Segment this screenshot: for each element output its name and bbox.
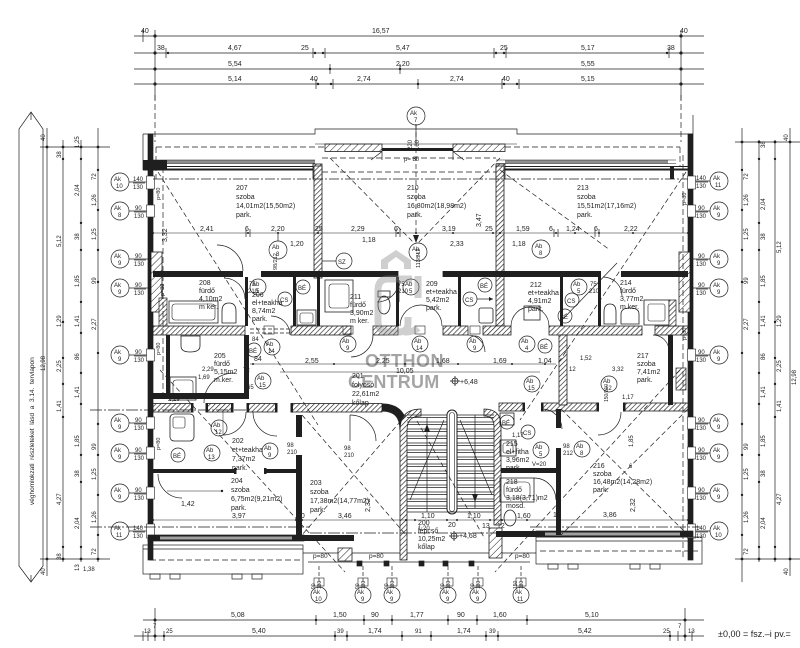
watermark roof icon [381,250,411,269]
svg-text:130: 130 [696,426,707,432]
svg-text:10: 10 [715,533,722,539]
svg-text:Ab: Ab [521,339,529,345]
svg-text:park.: park. [232,465,248,472]
svg-text:kőlap: kőlap [352,400,369,407]
duct wall right of 217 [668,335,673,405]
svg-text:6: 6 [394,226,398,233]
terrace teeth left [150,574,160,579]
218 door arc [534,478,556,500]
bottom dashdot left [90,526,310,528]
roof valley V room 210 right [418,158,500,243]
bottom cross tick [40,558,110,560]
Ab9 [340,336,356,352]
svg-text:130: 130 [390,580,396,589]
svg-text:130: 130 [361,580,367,589]
corridor hatched band segments [153,326,245,335]
diagonal bottom left [160,370,345,572]
svg-text:38: 38 [75,233,81,240]
stair central stringer [447,410,457,514]
tick arrows row2 [166,48,669,89]
svg-text:Ab: Ab [257,376,265,382]
svg-text:2,41: 2,41 [200,226,214,233]
svg-text:140: 140 [133,177,144,183]
bottom cross tick [735,558,800,560]
svg-text:38: 38 [761,233,767,240]
Ab9 202 [262,443,278,459]
svg-text:5,47: 5,47 [396,45,410,52]
vertical dashed to bottom circles [318,566,320,586]
shower 214 [644,300,669,325]
svg-text:10: 10 [553,512,561,519]
svg-text:1,59: 1,59 [516,226,530,233]
svg-text:mosd.: mosd. [506,503,525,510]
Ab5 door 209 [403,279,419,295]
svg-text:25: 25 [301,45,309,52]
Ak11 [513,587,529,603]
svg-text:BÉ: BÉ [249,348,257,355]
svg-text:130: 130 [133,534,144,540]
svg-text:130: 130 [133,185,144,191]
door gap 215 [524,402,542,412]
Ak9 [710,279,728,297]
svg-text:99: 99 [744,277,750,284]
svg-text:Ab: Ab [469,339,477,345]
BE 205 [247,343,261,357]
svg-text:2,55: 2,55 [305,358,319,365]
svg-text:130: 130 [696,291,707,297]
svg-text:park.: park. [506,465,522,472]
chain line D (innermost) [97,128,99,562]
partition below thick wall [317,277,320,326]
bottom wall 218 area [496,531,538,537]
svg-text:m.ker.: m.ker. [214,377,233,384]
leader through 212 circles [560,263,617,322]
svg-text:15,51m2(17,16m2): 15,51m2(17,16m2) [577,203,636,210]
svg-text:1,29: 1,29 [57,315,63,327]
svg-text:V=20: V=20 [532,462,547,468]
Ak9 [710,202,728,220]
bottom centre piers [338,548,352,561]
svg-text:Ab: Ab [576,444,584,450]
svg-text:13: 13 [482,523,490,530]
CS 206 [278,292,292,306]
svg-text:p=80: p=80 [156,438,162,450]
207 door arc [217,245,243,271]
centre window bar [382,148,453,151]
svg-text:72: 72 [744,548,750,555]
svg-text:40: 40 [41,134,47,141]
roof outline dashed top [156,146,325,148]
svg-text:±0,00 = fsz.–i pv.=: ±0,00 = fsz.–i pv.= [718,629,791,639]
svg-text:130: 130 [317,580,323,589]
door arc 208 [224,278,245,299]
svg-text:2,22: 2,22 [624,226,638,233]
partition 211|209 [396,277,399,326]
centre slab left (hatched) [325,144,382,152]
svg-text:1,60: 1,60 [493,612,507,619]
terrace dashed left [150,559,300,561]
svg-text:39: 39 [337,629,344,635]
svg-text:CS: CS [567,299,575,305]
Ak9 [440,587,456,603]
dim line across top rooms [153,233,688,520]
right terrace slab [536,537,702,564]
svg-text:Ak: Ak [713,283,721,289]
svg-text:Ak: Ak [114,283,122,289]
wall 202|204 [153,469,300,473]
svg-text:130: 130 [134,456,145,462]
svg-text:203: 203 [310,480,322,487]
svg-text:2,74: 2,74 [450,76,464,83]
bottom dimension block [134,580,791,641]
svg-text:Ab: Ab [213,423,221,429]
dim line row 3 [134,68,704,70]
svg-text:CENTRUM: CENTRUM [348,372,439,392]
corridor centreline [90,409,250,411]
svg-text:1,85: 1,85 [761,435,767,447]
svg-text:25: 25 [500,45,508,52]
door arc into 202 [223,412,246,435]
svg-text:90: 90 [698,488,705,494]
205 door arc [204,373,234,403]
SZ circle [336,253,352,269]
svg-text:2,27: 2,27 [744,318,750,330]
svg-text:szoba: szoba [637,361,656,368]
svg-text:3,96m2: 3,96m2 [506,457,529,464]
dash-dot eaves line [153,178,688,180]
partition 206|211 [293,277,296,326]
Ab9 [467,336,483,352]
svg-text:90: 90 [698,206,705,212]
svg-text:2,04: 2,04 [75,184,81,196]
svg-text:5,15m2: 5,15m2 [214,369,237,376]
bottom dashdot centre [310,532,536,534]
sink 206 [297,310,316,325]
svg-text:5,17: 5,17 [581,45,595,52]
svg-text:90: 90 [698,448,705,454]
Ak9 [470,587,486,603]
svg-text:2,04: 2,04 [761,517,767,529]
svg-text:Ak: Ak [114,488,122,494]
svg-text:65: 65 [247,385,254,391]
corridor left wall [244,335,249,399]
svg-text:Ab: Ab [272,245,280,251]
wc 208 [222,303,236,323]
svg-text:Ak: Ak [713,418,721,424]
Ak circle column right [692,172,728,540]
svg-text:fürdő: fürdő [350,302,366,309]
stairwell left wall hatched [400,409,421,560]
corridor bottom wall hatched [153,404,382,413]
partition 212|214 [560,277,563,326]
svg-text:p=80: p=80 [369,553,384,560]
left vertical dashed [162,167,164,399]
svg-text:park.: park. [310,507,326,514]
svg-text:208: 208 [199,280,211,287]
Ab15 215 [524,376,540,392]
svg-text:12: 12 [215,430,222,436]
Ak10 [111,173,129,191]
svg-text:130: 130 [134,496,145,502]
svg-text:40: 40 [310,76,318,83]
thick wall between 210 and 213 [496,166,504,326]
shower 211 [325,280,353,312]
svg-text:1,85: 1,85 [75,435,81,447]
svg-text:3,32: 3,32 [612,367,624,373]
svg-text:Ak: Ak [114,206,122,212]
Ab13 202 [204,445,220,461]
wall 215|218 [496,468,558,473]
svg-text:1,25: 1,25 [744,468,750,480]
svg-text:99: 99 [744,443,750,450]
svg-text:12: 12 [497,523,505,530]
svg-text:p=80: p=80 [515,553,530,560]
svg-text:5,55: 5,55 [581,61,595,68]
svg-text:212: 212 [563,451,574,457]
svg-text:13: 13 [144,629,151,635]
svg-text:park.: park. [236,212,252,219]
svg-text:140: 140 [696,176,707,182]
svg-text:m.ker.: m.ker. [620,304,639,311]
corridor door arc under 211 [351,335,373,357]
svg-text:1,26: 1,26 [92,511,98,523]
svg-text:1,60: 1,60 [517,513,531,520]
dim line row 4 [134,83,704,85]
svg-text:m ker.: m ker. [199,304,218,311]
svg-text:BÉ: BÉ [480,283,488,290]
door gap 216 [598,402,624,412]
cupboard 209 [479,308,493,323]
215 sink [500,413,514,425]
svg-text:13: 13 [75,564,81,571]
205 washbasin [181,336,200,352]
svg-text:5,12: 5,12 [777,241,783,253]
small sz/ab boxes above corridor circles [264,326,480,334]
bottom wall left section [148,535,304,541]
svg-text:1,85: 1,85 [761,275,767,287]
svg-text:5,54: 5,54 [228,61,242,68]
svg-text:2,33: 2,33 [450,241,464,248]
svg-text:5,42: 5,42 [578,628,592,635]
Ab5 216 [533,442,549,458]
svg-text:2,32: 2,32 [630,498,637,512]
svg-text:1,20: 1,20 [290,241,304,248]
svg-text:Ak: Ak [313,590,321,596]
svg-text:38: 38 [57,151,63,158]
svg-text:et+teakha: et+teakha [232,447,263,454]
svg-text:Ab: Ab [264,446,272,452]
wall under top rooms [153,271,688,277]
right top window strip [505,160,668,164]
X room 216 [561,409,688,535]
svg-text:1,41: 1,41 [761,315,767,327]
wall 205|202 [153,393,249,399]
svg-text:10: 10 [116,184,123,190]
dim line row 2 [134,635,704,637]
svg-text:130: 130 [134,291,145,297]
svg-text:90: 90 [698,350,705,356]
terrace dashed right [540,550,698,552]
svg-text:12: 12 [605,386,612,392]
BE 209 [478,278,492,292]
Ab8 room 213 [532,240,550,258]
svg-text:6: 6 [594,226,598,233]
svg-text:210: 210 [407,185,419,192]
svg-text:1,18: 1,18 [512,241,526,248]
svg-text:+6,48: +6,48 [460,379,478,386]
svg-text:1,26: 1,26 [744,511,750,523]
svg-text:p=80: p=80 [160,284,166,296]
sink 212 [524,306,540,320]
left top window strip [166,160,315,164]
Ab8 216 [574,441,590,457]
svg-text:40: 40 [680,28,688,35]
svg-text:14,01m2(15,50m2): 14,01m2(15,50m2) [236,203,295,210]
svg-text:72: 72 [92,548,98,555]
svg-text:Ak: Ak [713,488,721,494]
CS 209 [463,292,477,306]
Ak10 [311,587,327,603]
corridor wall rounded corner [382,408,404,431]
svg-text:17,38m2(14,77m2): 17,38m2(14,77m2) [310,498,369,505]
CS 215 [521,425,535,439]
svg-text:2,20: 2,20 [271,226,285,233]
Ak9 [710,250,728,268]
svg-text:Ak: Ak [114,418,122,424]
svg-text:1,10: 1,10 [421,513,435,520]
218 tub [500,478,534,502]
svg-text:130: 130 [134,426,145,432]
svg-text:Ab: Ab [252,282,260,288]
Ab14 centre [412,336,428,352]
extension dashed from top dims [154,95,156,142]
svg-text:Ab: Ab [526,379,534,385]
partition 208|206 [245,277,248,326]
svg-text:1,10: 1,10 [467,513,481,520]
svg-text:91: 91 [415,629,422,635]
svg-text:Ab: Ab [342,339,350,345]
door arc 214 [603,277,622,296]
svg-text:el+fitha: el+fitha [506,449,529,456]
chain line C [80,140,82,562]
wall 201|217 hatched [559,335,567,405]
svg-text:szoba: szoba [593,471,612,478]
svg-text:fürdő: fürdő [506,487,522,494]
svg-text:Ab: Ab [535,445,543,451]
Ak9 [710,346,728,364]
basin 214 [621,308,639,324]
svg-text:11: 11 [116,533,123,539]
svg-text:3,90m2: 3,90m2 [350,310,373,317]
Ab15 205 [255,373,271,389]
svg-text:Ab: Ab [405,282,413,288]
svg-text:3,47: 3,47 [476,213,483,227]
tub 208 [169,301,218,323]
corridor door arc 4 [653,335,669,351]
svg-text:Ak: Ak [515,590,523,596]
svg-text:13: 13 [208,455,215,461]
svg-text:90: 90 [135,448,142,454]
svg-text:2,25: 2,25 [777,360,783,372]
svg-text:90: 90 [698,418,705,424]
svg-text:CS: CS [523,431,531,437]
svg-text:38: 38 [157,45,165,52]
Ab5 door 212 [571,279,587,295]
bottom Ak circle row [311,580,529,603]
svg-text:BÉ: BÉ [502,420,510,427]
X room 203 [302,415,406,535]
svg-text:205: 205 [214,353,226,360]
svg-text:2,04: 2,04 [75,517,81,529]
svg-text:CS: CS [465,298,473,304]
svg-text:1,74: 1,74 [457,628,471,635]
svg-text:2,32: 2,32 [365,498,372,512]
svg-text:10,25m2: 10,25m2 [418,536,445,543]
svg-text:16,80m2(18,98m2): 16,80m2(18,98m2) [407,203,466,210]
svg-text:90: 90 [135,350,142,356]
hatched pier right of 214 [669,300,676,326]
Ak8 [111,202,129,220]
svg-text:Ab: Ab [573,282,581,288]
Ak7 top centre [407,107,425,125]
svg-text:1,74: 1,74 [368,628,382,635]
wall 202/204|203 [296,415,302,535]
svg-text:kőlap: kőlap [418,544,435,551]
svg-text:m ker.: m ker. [350,318,369,325]
symbol circles [171,107,617,586]
Ak11 [111,522,129,540]
right dimension chains [692,128,800,582]
svg-text:et+teakha: et+teakha [528,290,559,297]
entrance 206 dashed lintel [250,328,291,330]
thick wall between 207 and 210 [314,166,322,278]
svg-text:1,41: 1,41 [75,386,81,398]
svg-text:5,42m2: 5,42m2 [426,297,449,304]
svg-text:220: 220 [408,139,414,150]
diagonal 213 inner [500,170,610,250]
Ak9 [710,444,728,462]
svg-text:16,57: 16,57 [372,28,390,35]
svg-text:4,67: 4,67 [228,45,242,52]
Ak10 [710,522,728,540]
svg-text:park.: park. [231,505,247,512]
svg-text:3,32: 3,32 [162,228,169,242]
svg-text:park.: park. [252,316,268,323]
top dimension block [134,28,704,100]
thick wall top pier left [313,164,322,179]
left extension [154,608,156,641]
svg-text:40: 40 [784,134,790,141]
bottom wall right section [536,531,693,537]
Ab7 room 210 [409,243,427,261]
svg-text:98: 98 [287,443,294,449]
small boxes above bottom circles [314,578,526,586]
svg-text:130: 130 [134,358,145,364]
svg-text:213: 213 [577,185,589,192]
svg-text:90: 90 [698,283,705,289]
svg-text:6: 6 [549,226,553,233]
svg-text:202: 202 [232,438,244,445]
CS 212 [565,293,579,307]
wall under corridor right hatched [499,403,688,411]
svg-text:5,14: 5,14 [228,76,242,83]
svg-text:Ak: Ak [713,254,721,260]
216 door arc [598,412,621,435]
BE 206 [296,280,310,294]
fixtures and doors [158,229,676,526]
svg-text:90: 90 [371,612,379,619]
hatched pier left strip [159,298,167,326]
